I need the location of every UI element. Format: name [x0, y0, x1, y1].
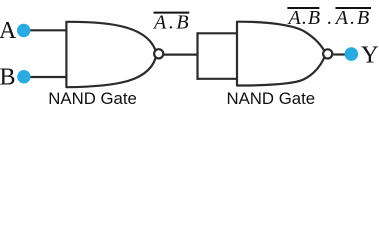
svg-text:Y: Y	[361, 41, 379, 68]
svg-text:.: .	[327, 7, 332, 29]
svg-text:B: B	[0, 65, 16, 91]
svg-text:A.B: A.B	[334, 7, 371, 29]
svg-text:A.B: A.B	[287, 7, 322, 29]
svg-text:NAND Gate: NAND Gate	[227, 89, 316, 106]
svg-text:A.B: A.B	[152, 12, 191, 34]
svg-text:NAND Gate: NAND Gate	[48, 89, 137, 106]
svg-text:A: A	[0, 18, 17, 44]
